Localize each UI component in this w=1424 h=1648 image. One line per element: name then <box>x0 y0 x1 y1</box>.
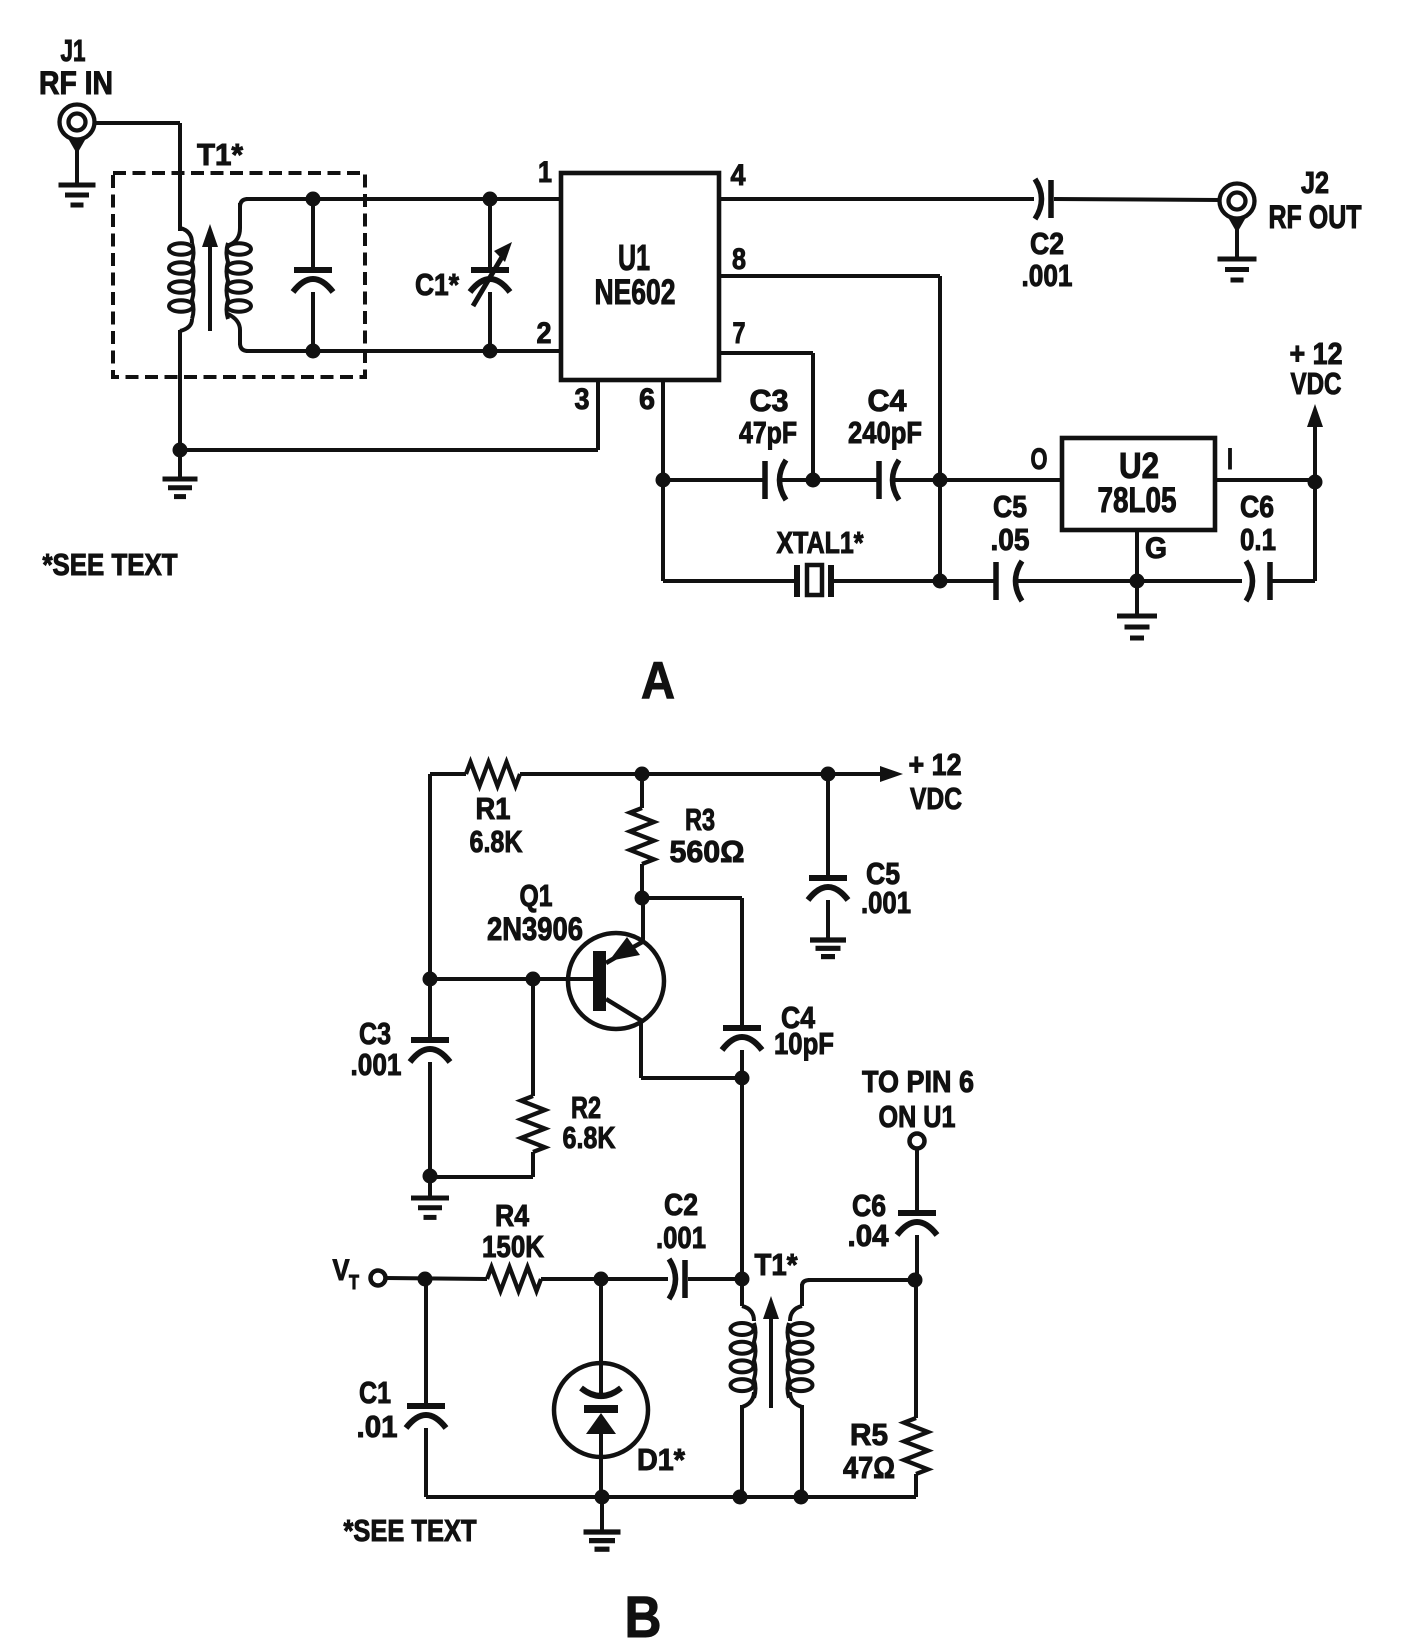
svg-text:3: 3 <box>575 383 590 416</box>
svg-text:V: V <box>333 1254 350 1287</box>
svg-text:47Ω: 47Ω <box>843 1450 895 1485</box>
svg-text:B: B <box>625 1585 662 1648</box>
svg-text:.001: .001 <box>861 885 911 920</box>
svg-text:C4: C4 <box>868 383 908 418</box>
svg-text:Q1: Q1 <box>520 878 553 913</box>
svg-text:.01: .01 <box>357 1409 398 1444</box>
svg-text:J2: J2 <box>1301 165 1329 200</box>
svg-text:C3: C3 <box>750 383 789 418</box>
svg-text:R3: R3 <box>685 802 715 837</box>
svg-text:6.8K: 6.8K <box>563 1120 616 1155</box>
svg-text:TO PIN 6: TO PIN 6 <box>862 1064 974 1099</box>
svg-text:RF OUT: RF OUT <box>1269 199 1362 235</box>
svg-text:R4: R4 <box>495 1198 530 1233</box>
svg-text:*SEE TEXT: *SEE TEXT <box>43 547 178 582</box>
svg-text:7: 7 <box>733 317 746 350</box>
svg-text:47pF: 47pF <box>739 415 797 450</box>
svg-text:C3: C3 <box>359 1016 391 1051</box>
svg-text:T1*: T1* <box>197 137 244 172</box>
svg-text:150K: 150K <box>482 1229 545 1264</box>
svg-text:4: 4 <box>731 159 746 192</box>
svg-text:2: 2 <box>537 317 552 350</box>
svg-text:C1: C1 <box>359 1375 391 1410</box>
svg-text:C2: C2 <box>1030 226 1064 261</box>
svg-text:G: G <box>1145 532 1167 565</box>
svg-text:ON U1: ON U1 <box>879 1099 956 1134</box>
svg-text:C6: C6 <box>1240 489 1274 524</box>
svg-text:.001: .001 <box>1022 258 1073 293</box>
svg-text:C2: C2 <box>664 1187 698 1222</box>
svg-text:VDC: VDC <box>1291 366 1342 401</box>
svg-text:8: 8 <box>732 243 746 276</box>
svg-text:U2: U2 <box>1119 445 1159 486</box>
svg-text:A: A <box>641 652 675 710</box>
svg-text:XTAL1*: XTAL1* <box>777 525 865 560</box>
svg-text:0.1: 0.1 <box>1240 522 1276 557</box>
svg-text:6: 6 <box>639 383 655 416</box>
svg-text:I: I <box>1227 443 1233 476</box>
svg-text:.001: .001 <box>351 1047 402 1082</box>
svg-text:D1*: D1* <box>637 1442 686 1477</box>
svg-text:2N3906: 2N3906 <box>487 911 583 947</box>
svg-text:C1*: C1* <box>415 267 460 302</box>
svg-text:.04: .04 <box>848 1218 890 1253</box>
svg-text:T1*: T1* <box>755 1247 799 1282</box>
svg-text:O: O <box>1031 443 1048 476</box>
svg-text:1: 1 <box>538 156 552 189</box>
svg-text:R1: R1 <box>476 791 511 826</box>
svg-text:T: T <box>349 1272 359 1294</box>
svg-text:J1: J1 <box>61 33 86 68</box>
svg-text:+ 12: + 12 <box>909 747 962 782</box>
svg-text:78L05: 78L05 <box>1098 481 1177 520</box>
svg-text:C5: C5 <box>993 489 1027 524</box>
svg-text:10pF: 10pF <box>774 1026 834 1061</box>
svg-text:.05: .05 <box>991 522 1030 557</box>
svg-text:*SEE TEXT: *SEE TEXT <box>344 1513 477 1548</box>
svg-text:NE602: NE602 <box>595 273 676 312</box>
svg-text:6.8K: 6.8K <box>470 824 523 859</box>
svg-text:RF IN: RF IN <box>39 65 113 101</box>
svg-text:VDC: VDC <box>910 781 962 816</box>
svg-text:U1: U1 <box>618 237 650 278</box>
svg-text:R5: R5 <box>850 1417 888 1452</box>
svg-text:.001: .001 <box>656 1220 706 1255</box>
svg-text:240pF: 240pF <box>848 415 922 450</box>
svg-text:560Ω: 560Ω <box>670 834 745 869</box>
